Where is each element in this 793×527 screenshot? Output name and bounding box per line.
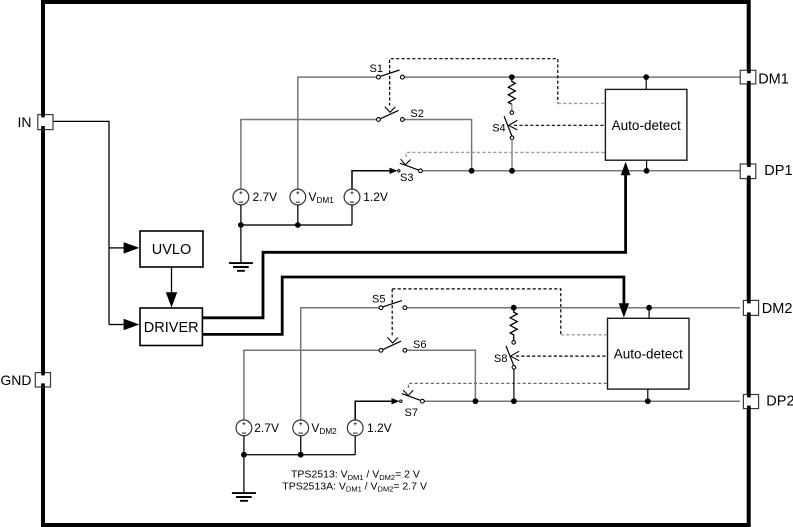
wire DM1 stub to U3 (645, 77, 647, 89)
arrowhead into DRIVER top (166, 292, 177, 307)
voltage source V6 1.2V (347, 420, 391, 436)
junction dot DM1 (643, 74, 649, 80)
voltage source V4 2.7V (236, 420, 279, 436)
junction dot S2-DP1 (469, 168, 475, 174)
switch S6 (379, 339, 426, 352)
switch S1 (370, 63, 405, 79)
note TPS2513 values (282, 469, 427, 494)
switch S7 (400, 394, 425, 419)
wire S6 to DP2 rail (407, 350, 476, 401)
wire UVLO to DRIVER (171, 267, 173, 293)
junction dot R2 top (511, 305, 517, 311)
svg-text:S2: S2 (410, 108, 423, 120)
svg-text:2.7V: 2.7V (253, 190, 278, 204)
arrowhead into UVLO (124, 242, 140, 253)
svg-text:DM2: DM2 (762, 301, 793, 317)
dashed control S8 from Auto-detect U4 (516, 355, 607, 357)
svg-text:S4: S4 (492, 123, 505, 135)
svg-text:S8: S8 (494, 353, 507, 365)
svg-text:DP1: DP1 (764, 163, 792, 179)
svg-text:DP2: DP2 (766, 394, 793, 410)
switch S8 (494, 341, 516, 370)
junction dot DP1 stub (644, 168, 650, 174)
wire DP2 stub to U4 (647, 389, 649, 401)
svg-text:Auto-detect: Auto-detect (612, 118, 681, 133)
arrowhead at S7 pivot (392, 398, 400, 404)
wire VDM1 riser to S1 (298, 77, 377, 190)
svg-text:Auto-detect: Auto-detect (614, 347, 683, 362)
wire DP1 rail (422, 170, 740, 172)
arrowhead down into Auto-detect U4 top (619, 303, 629, 317)
wire 2.7V riser to S6 (244, 350, 379, 420)
wire VDM2 riser to S5 (301, 308, 379, 421)
junction dot DM2 (646, 305, 652, 311)
wire source rail bottom group (244, 436, 355, 455)
wire S4 to DP1 rail (511, 140, 513, 171)
DRIVER box U2 (140, 308, 202, 346)
ground G2 (232, 455, 256, 501)
wire R1 to S4 (511, 104, 513, 110)
voltage source V1 2.7V (233, 189, 277, 205)
wire source rail top group (241, 205, 352, 225)
switch S4 (492, 111, 514, 140)
ground G1 (229, 225, 253, 271)
svg-text:2.7V: 2.7V (254, 421, 279, 435)
resistor R2 (510, 308, 517, 341)
switch S5 (372, 293, 407, 309)
arrowhead into DRIVER (124, 319, 140, 330)
wire 1.2V riser to S3 (352, 171, 396, 190)
arrow onto S7 blade (403, 390, 413, 396)
pin DM2 (743, 300, 792, 317)
svg-text:UVLO: UVLO (152, 242, 192, 258)
junction dot S8-DP2 (511, 398, 517, 404)
svg-text:S3: S3 (400, 172, 413, 184)
svg-text:S1: S1 (370, 63, 383, 75)
resistor R1 (508, 77, 515, 104)
arrow onto S8 blade (511, 351, 520, 361)
wire DP2 rail (425, 400, 740, 402)
wire DM2 rail (407, 307, 740, 309)
arrow onto S2 blade (385, 107, 396, 113)
switch S3 (398, 163, 423, 184)
dashed control S3 to Auto-detect U3 (406, 152, 604, 157)
wire branch to UVLO (109, 247, 125, 249)
wire DP1 stub to U3 (646, 160, 648, 171)
dashed control S1 stub into box (558, 102, 605, 104)
junction dot DP2 stub (645, 398, 651, 404)
pin IN (18, 114, 54, 130)
wire S8 to DP2 rail (513, 369, 515, 401)
wire branch to DRIVER (109, 324, 125, 326)
arrow onto S4 blade (509, 120, 518, 129)
arrow onto S3 blade (401, 159, 411, 165)
svg-text:S7: S7 (405, 407, 418, 419)
voltage source V3 1.2V (344, 189, 388, 205)
junction dot R1 top (509, 74, 515, 80)
junction dot (295, 222, 301, 228)
junction dot S6-DP2 (473, 398, 479, 404)
wire 2.7V riser to S2 (241, 120, 377, 191)
voltage source V5 VDM2 (293, 420, 337, 436)
Auto-detect box U3 (605, 89, 687, 160)
arrowhead at S3 pivot (390, 168, 398, 174)
wire DM2 stub to U4 (648, 308, 650, 319)
voltage source V2 VDM1 (290, 189, 334, 205)
switch S2 (377, 108, 424, 121)
pin GND (0, 372, 50, 388)
junction dot (241, 452, 247, 458)
svg-text:GND: GND (0, 372, 31, 388)
svg-text:1.2V: 1.2V (367, 421, 392, 435)
dashed control S5 to S6 (391, 289, 393, 336)
pin DP2 (743, 394, 793, 410)
dashed control S5 stub into box (561, 334, 607, 336)
pin DM1 (740, 70, 789, 88)
svg-text:DM1: DM1 (758, 71, 789, 87)
arrowhead up into Auto-detect U3 bottom (621, 162, 631, 176)
wire IN to internal bus (53, 121, 109, 324)
Auto-detect box U4 (608, 318, 690, 389)
svg-text:IN: IN (18, 114, 32, 130)
dashed control S1 path to Auto-detect U3 (390, 59, 558, 104)
dashed control S7 to Auto-detect U4 (408, 383, 606, 388)
svg-text:S5: S5 (372, 293, 385, 305)
junction dot (298, 452, 304, 458)
svg-text:DRIVER: DRIVER (144, 320, 199, 336)
dashed control S4 from Auto-detect U3 (514, 124, 605, 126)
dashed control S5 path to Auto-detect U4 (392, 289, 561, 335)
arrow onto S6 blade (387, 337, 398, 343)
dashed control S1 to S2 (389, 65, 391, 106)
svg-text:S6: S6 (413, 339, 426, 351)
wire S2 to DP1 rail (404, 120, 471, 171)
UVLO box U1 (140, 231, 203, 267)
thick wire DRIVER output 2 to Auto-detect U4 (202, 277, 624, 334)
wire 1.2V riser to S7 (355, 401, 398, 420)
pin DP1 (740, 163, 792, 179)
svg-text:1.2V: 1.2V (363, 190, 388, 204)
junction dot S4-DP1 (509, 168, 515, 174)
wire DM1 rail (404, 76, 740, 78)
thick wire DRIVER output 1 to Auto-detect U3 (202, 174, 625, 318)
junction dot (238, 222, 244, 228)
